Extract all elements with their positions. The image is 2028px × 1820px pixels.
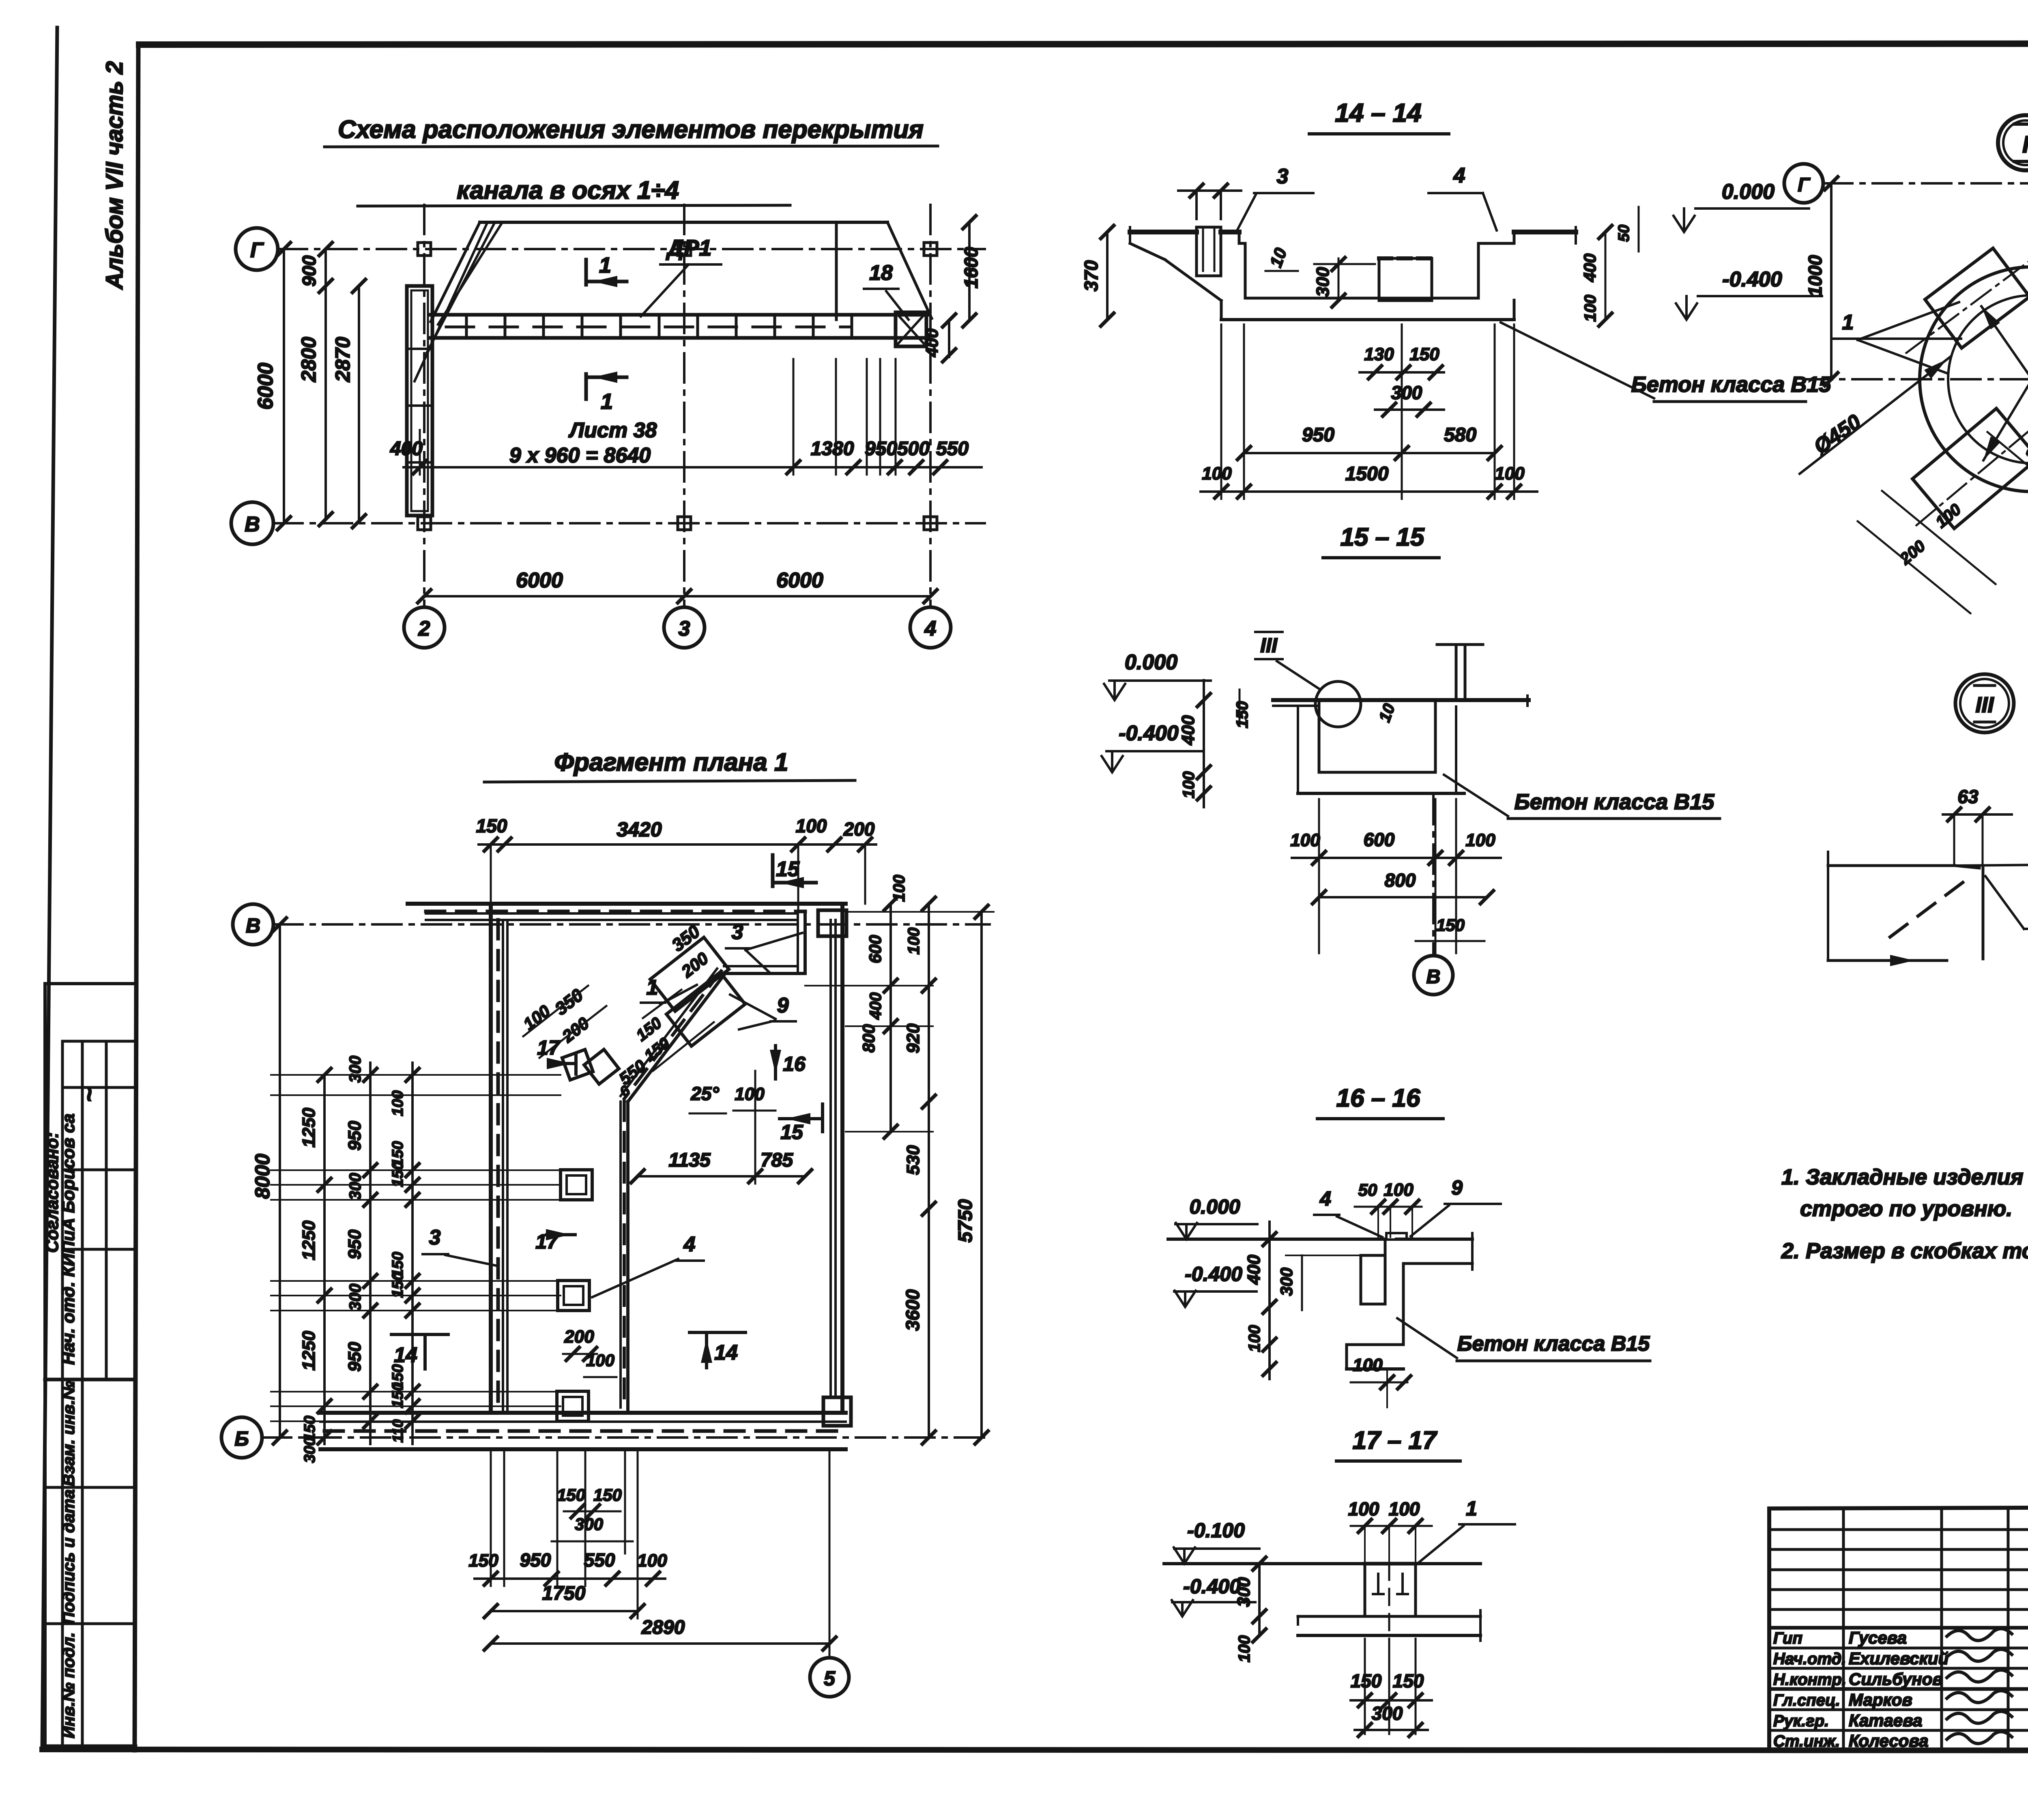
svg-text:1250: 1250 bbox=[299, 1108, 319, 1147]
15-15 bottom dims bbox=[1318, 799, 1320, 953]
svg-text:100: 100 bbox=[637, 1551, 667, 1571]
svg-text:Катаева: Катаева bbox=[1849, 1711, 1922, 1730]
svg-text:100: 100 bbox=[905, 928, 923, 955]
svg-text:ДР1: ДР1 bbox=[666, 235, 712, 260]
svg-text:950: 950 bbox=[345, 1229, 365, 1259]
detail III body bbox=[1828, 864, 1955, 867]
svg-text:9: 9 bbox=[777, 994, 789, 1017]
svg-text:9: 9 bbox=[1451, 1176, 1463, 1199]
svg-text:150: 150 bbox=[1351, 1670, 1382, 1691]
svg-text:150: 150 bbox=[468, 1551, 498, 1571]
svg-text:2870: 2870 bbox=[331, 337, 354, 382]
svg-text:1: 1 bbox=[1842, 311, 1854, 334]
svg-text:Фрагмент плана 1: Фрагмент плана 1 bbox=[554, 748, 788, 776]
svg-text:100: 100 bbox=[1235, 1635, 1253, 1663]
paper left edge line bbox=[42, 28, 57, 1749]
svg-text:110: 110 bbox=[389, 1419, 406, 1442]
17-17 body bbox=[1164, 1562, 1365, 1565]
svg-text:920: 920 bbox=[903, 1023, 923, 1053]
fragment top dims bbox=[479, 843, 876, 846]
axis В fragment bbox=[233, 904, 273, 945]
svg-text:Г: Г bbox=[1798, 174, 1811, 196]
svg-text:100: 100 bbox=[1246, 1325, 1263, 1352]
svg-text:150: 150 bbox=[389, 1272, 406, 1298]
svg-text:1750: 1750 bbox=[542, 1583, 586, 1604]
svg-text:400: 400 bbox=[922, 329, 941, 357]
dim 2870 bbox=[358, 286, 360, 521]
svg-text:300: 300 bbox=[575, 1515, 603, 1534]
svg-text:Нач.отд.: Нач.отд. bbox=[1773, 1650, 1846, 1668]
svg-text:9 х 960 = 8640: 9 х 960 = 8640 bbox=[509, 444, 651, 467]
svg-text:150: 150 bbox=[389, 1161, 406, 1187]
svg-text:16: 16 bbox=[783, 1053, 806, 1075]
svg-text:Схема расположения элементов: Схема расположения элементов перекрытия bbox=[338, 116, 924, 144]
svg-text:300: 300 bbox=[346, 1173, 364, 1200]
svg-text:1: 1 bbox=[1466, 1497, 1477, 1520]
svg-text:50: 50 bbox=[1358, 1180, 1377, 1199]
17-17 left dims bbox=[1258, 1564, 1261, 1635]
svg-text:Ст.инж.: Ст.инж. bbox=[1773, 1732, 1840, 1750]
svg-text:Марков: Марков bbox=[1849, 1690, 1912, 1709]
svg-text:1250: 1250 bbox=[299, 1331, 319, 1371]
svg-text:550: 550 bbox=[584, 1549, 615, 1571]
svg-text:-0.400: -0.400 bbox=[1119, 722, 1179, 745]
svg-text:Сильбунов: Сильбунов bbox=[1849, 1670, 1943, 1689]
svg-text:150: 150 bbox=[1393, 1670, 1424, 1691]
svg-text:100: 100 bbox=[1465, 830, 1495, 850]
16-16 left dims bbox=[1268, 1222, 1271, 1379]
beam right end block 18 bbox=[896, 312, 926, 346]
svg-text:Б: Б bbox=[234, 1427, 249, 1450]
svg-text:III: III bbox=[1260, 634, 1278, 657]
channel beam bbox=[431, 313, 929, 317]
svg-text:800: 800 bbox=[1385, 870, 1416, 891]
axis Б fragment bbox=[221, 1417, 262, 1458]
svg-text:3420: 3420 bbox=[617, 818, 662, 841]
axis node squares bbox=[418, 243, 431, 256]
section mark 14 left bbox=[391, 1333, 448, 1336]
svg-text:950: 950 bbox=[865, 438, 897, 460]
section mark 14 right bbox=[690, 1331, 745, 1334]
leader fan lines bbox=[415, 224, 487, 381]
axis В bbox=[231, 502, 273, 544]
svg-text:400: 400 bbox=[1178, 715, 1198, 746]
svg-text:400: 400 bbox=[1580, 254, 1599, 282]
cover trapezoid outline bbox=[480, 221, 887, 224]
svg-text:14: 14 bbox=[714, 1341, 738, 1364]
svg-text:25°: 25° bbox=[690, 1083, 719, 1104]
svg-text:~: ~ bbox=[75, 1088, 103, 1102]
svg-text:100: 100 bbox=[796, 815, 827, 836]
svg-text:15: 15 bbox=[776, 857, 800, 881]
svg-text:Нач. отд. КИПиА Борисов са: Нач. отд. КИПиА Борисов са bbox=[59, 1113, 78, 1364]
svg-text:18: 18 bbox=[869, 261, 893, 285]
svg-text:150: 150 bbox=[557, 1485, 585, 1504]
svg-text:5: 5 bbox=[824, 1667, 836, 1690]
plan bottom dim row bbox=[404, 466, 982, 468]
svg-text:В: В bbox=[1426, 966, 1441, 988]
svg-text:0.000: 0.000 bbox=[1189, 1195, 1240, 1218]
left slab stack bbox=[407, 286, 432, 516]
svg-text:строго по уровню.: строго по уровню. bbox=[1800, 1197, 2012, 1221]
svg-text:3: 3 bbox=[1277, 165, 1289, 188]
svg-text:50: 50 bbox=[1616, 225, 1633, 242]
svg-text:8000: 8000 bbox=[251, 1154, 274, 1199]
svg-text:0.000: 0.000 bbox=[1722, 180, 1774, 204]
svg-text:-0.400: -0.400 bbox=[1185, 1263, 1242, 1285]
svg-text:I: I bbox=[2022, 131, 2028, 158]
svg-text:Гусева: Гусева bbox=[1849, 1628, 1907, 1647]
svg-text:Г: Г bbox=[250, 239, 264, 262]
dim 1600 400 right bbox=[968, 222, 971, 320]
detail I title circle bbox=[1998, 115, 2028, 170]
svg-text:Лист 38: Лист 38 bbox=[568, 419, 657, 442]
svg-text:14 – 14: 14 – 14 bbox=[1335, 98, 1422, 127]
svg-text:Взам. инв.№: Взам. инв.№ bbox=[59, 1381, 78, 1486]
svg-text:15 – 15: 15 – 15 bbox=[1341, 523, 1425, 551]
detail III title circle bbox=[1955, 674, 2014, 733]
svg-text:Гл.спец.: Гл.спец. bbox=[1773, 1691, 1840, 1709]
svg-text:1: 1 bbox=[599, 253, 611, 277]
svg-text:1000: 1000 bbox=[1805, 255, 1826, 297]
frame border bbox=[139, 43, 2028, 45]
svg-text:100: 100 bbox=[735, 1084, 765, 1104]
svg-text:Подпись и дата: Подпись и дата bbox=[59, 1489, 78, 1624]
svg-text:100: 100 bbox=[1348, 1498, 1379, 1519]
svg-text:300: 300 bbox=[346, 1056, 364, 1083]
fragment left wall bbox=[489, 904, 493, 1413]
svg-text:1250: 1250 bbox=[299, 1220, 319, 1260]
svg-text:100: 100 bbox=[389, 1090, 406, 1116]
svg-text:150: 150 bbox=[1409, 344, 1439, 364]
svg-text:2: 2 bbox=[418, 617, 430, 640]
plan bottom 6000 dims bbox=[424, 595, 930, 597]
svg-text:150: 150 bbox=[476, 815, 507, 836]
svg-text:15: 15 bbox=[780, 1121, 803, 1143]
right dim chain B bbox=[928, 904, 930, 1438]
svg-text:100: 100 bbox=[1180, 771, 1198, 799]
svg-text:6000: 6000 bbox=[776, 569, 823, 592]
svg-text:4: 4 bbox=[1319, 1187, 1331, 1210]
svg-text:800: 800 bbox=[859, 1024, 878, 1053]
dim 900 2800 bbox=[324, 249, 327, 519]
svg-text:150: 150 bbox=[1436, 915, 1465, 935]
svg-text:300: 300 bbox=[346, 1284, 364, 1311]
svg-text:100: 100 bbox=[1495, 464, 1525, 483]
svg-text:400: 400 bbox=[390, 438, 423, 460]
svg-text:Бетон класса В15: Бетон класса В15 bbox=[1457, 1332, 1650, 1356]
svg-text:950: 950 bbox=[1302, 424, 1334, 446]
axis 2 bbox=[423, 205, 425, 607]
svg-text:950: 950 bbox=[345, 1121, 365, 1151]
dim 6000 left vertical bbox=[283, 249, 285, 523]
svg-text:300: 300 bbox=[1313, 267, 1333, 297]
svg-text:200: 200 bbox=[843, 819, 875, 840]
svg-text:370: 370 bbox=[1081, 260, 1102, 291]
column plate top pair bbox=[562, 1049, 593, 1080]
detail I pad centerlines bbox=[1906, 245, 2028, 353]
bottom wall right block bbox=[823, 1397, 851, 1426]
svg-text:100: 100 bbox=[1384, 1180, 1414, 1200]
axis Г bbox=[236, 228, 278, 270]
15-15 axis В circle bbox=[1414, 956, 1453, 995]
svg-text:100: 100 bbox=[1581, 295, 1599, 322]
svg-text:III: III bbox=[1975, 693, 1994, 717]
right dim chain C bbox=[980, 912, 983, 1438]
detail I dim 1000 bbox=[1830, 183, 1833, 379]
15-15 left dims bbox=[1203, 680, 1205, 807]
mid vertical wall bbox=[626, 1102, 629, 1413]
svg-text:63: 63 bbox=[1957, 786, 1979, 807]
svg-text:3: 3 bbox=[429, 1226, 441, 1249]
svg-text:600: 600 bbox=[866, 935, 885, 963]
svg-text:950: 950 bbox=[345, 1342, 365, 1372]
svg-text:300: 300 bbox=[1234, 1577, 1254, 1607]
svg-text:Бетон класса В15: Бетон класса В15 bbox=[1631, 372, 1832, 397]
svg-text:-0.100: -0.100 bbox=[1187, 1519, 1245, 1542]
svg-text:1. Закладные изделия поз.1,4: 1. Закладные изделия поз.1,4,9 в щитовой… bbox=[1781, 1165, 2028, 1189]
svg-text:400: 400 bbox=[867, 993, 885, 1020]
svg-text:17: 17 bbox=[537, 1036, 561, 1059]
right dim chain A bbox=[889, 904, 892, 1132]
14-14 dims below bbox=[1220, 324, 1222, 499]
svg-text:300: 300 bbox=[1391, 382, 1422, 403]
svg-text:-0.400: -0.400 bbox=[1722, 268, 1782, 291]
17-17 bottom dims bbox=[1364, 1639, 1366, 1734]
svg-text:Колесова: Колесова bbox=[1849, 1731, 1929, 1750]
section mark 1 lower bbox=[584, 374, 588, 399]
svg-text:100: 100 bbox=[1202, 464, 1232, 483]
svg-text:785: 785 bbox=[760, 1150, 793, 1171]
svg-text:4: 4 bbox=[683, 1233, 696, 1256]
svg-text:300: 300 bbox=[1372, 1703, 1403, 1724]
svg-text:2. Размер в скобках только: 2. Размер в скобках только для каналов в… bbox=[1781, 1239, 2028, 1263]
svg-text:950: 950 bbox=[520, 1549, 551, 1571]
svg-text:Рук.гр.: Рук.гр. bbox=[1773, 1712, 1829, 1730]
svg-text:100: 100 bbox=[1290, 830, 1320, 850]
column plates bbox=[561, 1170, 592, 1200]
detail I pads bbox=[1925, 248, 2028, 348]
svg-text:100: 100 bbox=[1389, 1498, 1420, 1519]
diagonal plates bbox=[650, 937, 729, 1011]
fragment bottom dims bbox=[490, 1449, 492, 1586]
svg-text:550: 550 bbox=[936, 438, 969, 460]
svg-text:2800: 2800 bbox=[297, 337, 320, 382]
svg-text:3600: 3600 bbox=[902, 1289, 923, 1331]
detail I axis Г bbox=[1784, 164, 1823, 203]
svg-text:Н.контр.: Н.контр. bbox=[1773, 1671, 1846, 1689]
svg-text:400: 400 bbox=[1244, 1255, 1264, 1285]
axis 5 circle bbox=[810, 1658, 849, 1697]
svg-text:500: 500 bbox=[897, 438, 930, 460]
dim 1135 785 bbox=[638, 1175, 805, 1178]
sidebar table bbox=[43, 984, 47, 1746]
svg-text:2890: 2890 bbox=[641, 1617, 685, 1638]
15-15 body bbox=[1273, 698, 1529, 702]
svg-text:100: 100 bbox=[890, 875, 908, 902]
svg-text:530: 530 bbox=[903, 1145, 923, 1175]
svg-text:150: 150 bbox=[1233, 701, 1251, 728]
svg-text:6000: 6000 bbox=[254, 363, 277, 410]
diagonal wall bbox=[628, 973, 725, 1102]
16-16 body bbox=[1168, 1238, 1385, 1241]
top right wall block bbox=[818, 910, 846, 936]
svg-text:5750: 5750 bbox=[955, 1199, 976, 1242]
svg-text:1500: 1500 bbox=[1345, 463, 1389, 485]
svg-text:300: 300 bbox=[301, 1437, 318, 1463]
detail I flange bbox=[1920, 267, 2028, 492]
svg-text:канала в осях 1÷4: канала в осях 1÷4 bbox=[457, 176, 679, 204]
axis 4 bbox=[929, 205, 932, 607]
14-14 right rotated dims bbox=[1605, 232, 1607, 320]
svg-text:6000: 6000 bbox=[516, 569, 563, 592]
svg-text:4: 4 bbox=[1453, 164, 1465, 187]
svg-text:1600: 1600 bbox=[960, 247, 982, 288]
svg-text:150: 150 bbox=[389, 1382, 406, 1408]
detail I radial arrows bbox=[1981, 306, 2028, 379]
svg-text:В: В bbox=[245, 513, 260, 536]
svg-text:300: 300 bbox=[1277, 1268, 1296, 1296]
svg-text:16 – 16: 16 – 16 bbox=[1336, 1084, 1420, 1112]
fragment walls top bbox=[408, 902, 846, 906]
svg-text:Гип: Гип bbox=[1773, 1629, 1802, 1647]
svg-text:1135: 1135 bbox=[668, 1150, 711, 1171]
svg-text:3: 3 bbox=[732, 920, 743, 944]
svg-text:100: 100 bbox=[586, 1351, 614, 1370]
svg-text:580: 580 bbox=[1444, 424, 1476, 446]
svg-text:130: 130 bbox=[1364, 344, 1394, 364]
svg-text:1: 1 bbox=[647, 976, 658, 999]
svg-text:1: 1 bbox=[601, 389, 613, 414]
svg-text:150: 150 bbox=[593, 1485, 622, 1504]
svg-text:Бетон класса В15: Бетон класса В15 bbox=[1515, 790, 1715, 814]
svg-text:1380: 1380 bbox=[811, 438, 854, 460]
fragment bottom wall bbox=[320, 1411, 846, 1415]
svg-text:600: 600 bbox=[1364, 829, 1395, 850]
svg-text:900: 900 bbox=[299, 255, 320, 286]
left dim chains bbox=[279, 924, 281, 1438]
notch walls bbox=[797, 913, 799, 971]
svg-text:4: 4 bbox=[924, 617, 937, 640]
fragment right wall bbox=[840, 904, 844, 1413]
svg-text:200: 200 bbox=[564, 1327, 594, 1347]
svg-text:Альбом VII часть 2: Альбом VII часть 2 bbox=[101, 61, 128, 290]
axis 3 bbox=[683, 205, 685, 607]
svg-text:100: 100 bbox=[1353, 1355, 1383, 1375]
svg-text:17 – 17: 17 – 17 bbox=[1353, 1427, 1437, 1455]
svg-text:14: 14 bbox=[394, 1343, 417, 1367]
section mark 1 upper bbox=[584, 260, 588, 285]
14-14 left dim 370 bbox=[1106, 232, 1109, 320]
svg-text:В: В bbox=[246, 914, 260, 937]
title block grid bbox=[1769, 1506, 2028, 1508]
svg-text:0.000: 0.000 bbox=[1125, 651, 1177, 674]
svg-text:Ехилевский: Ехилевский bbox=[1849, 1649, 1949, 1668]
svg-text:-0.400: -0.400 bbox=[1183, 1575, 1241, 1598]
svg-text:Инв.№ подл.: Инв.№ подл. bbox=[59, 1632, 78, 1738]
title block signature squiggles bbox=[1947, 1629, 2012, 1640]
svg-text:3: 3 bbox=[679, 617, 690, 640]
14-14 body bbox=[1130, 230, 1197, 234]
